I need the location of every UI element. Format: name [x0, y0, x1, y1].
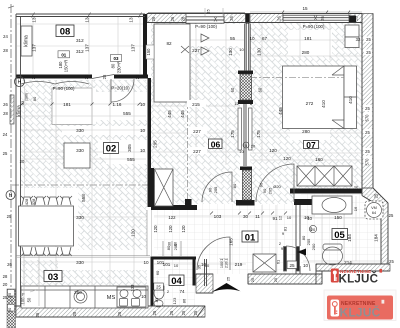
stove/sink unit — [117, 287, 146, 307]
svg-text:410: 410 — [321, 100, 326, 108]
washing machine — [365, 201, 383, 219]
svg-text:MS: MS — [107, 295, 116, 301]
svg-text:20: 20 — [251, 144, 256, 149]
svg-text:H: H — [9, 193, 13, 199]
svg-text:25: 25 — [181, 310, 186, 315]
svg-text:25: 25 — [365, 130, 370, 135]
svg-text:205: 205 — [268, 187, 273, 194]
svg-text:67: 67 — [262, 36, 268, 41]
svg-text:25: 25 — [273, 277, 278, 282]
svg-text:10: 10 — [140, 148, 146, 153]
svg-text:P=20(10): P=20(10) — [111, 86, 130, 91]
svg-text:26: 26 — [3, 102, 8, 107]
svg-text:130: 130 — [257, 48, 262, 56]
svg-text:P=90 (100): P=90 (100) — [195, 24, 217, 29]
svg-text:25: 25 — [169, 310, 174, 315]
closet row bedroom south — [297, 166, 352, 186]
svg-text:25: 25 — [35, 312, 40, 317]
svg-text:81: 81 — [154, 297, 159, 302]
svg-text:130: 130 — [228, 48, 233, 56]
entry door — [197, 237, 230, 270]
klima terrace — [21, 26, 32, 56]
kitchen dim lines — [16, 256, 150, 306]
floor: wc 04 tiles — [153, 259, 195, 306]
svg-text:103: 103 — [214, 214, 222, 219]
right exterior wall upper — [362, 14, 373, 189]
centerline over bed — [250, 77, 344, 79]
bathroom west wall — [295, 205, 297, 246]
dining chairs — [21, 196, 72, 256]
svg-text:445: 445 — [180, 110, 185, 118]
svg-text:330: 330 — [76, 128, 84, 133]
svg-text:330: 330 — [76, 148, 84, 153]
svg-text:10: 10 — [239, 149, 244, 154]
svg-text:H: H — [18, 80, 22, 86]
property line left — [10, 4, 12, 302]
svg-text:25: 25 — [152, 310, 157, 315]
right wall edges — [361, 14, 363, 196]
bed details — [344, 96, 357, 98]
svg-text:60: 60 — [230, 87, 235, 92]
svg-text:26: 26 — [320, 16, 325, 21]
svg-text:123: 123 — [172, 297, 177, 304]
svg-text:184: 184 — [374, 234, 379, 242]
svg-text:KLJUČ: KLJUČ — [339, 273, 379, 286]
windows (double lines) — [186, 17, 224, 23]
svg-text:28: 28 — [31, 74, 36, 79]
entrance south wall — [248, 274, 322, 284]
svg-text:06: 06 — [211, 140, 221, 150]
floor: room 06 parquet — [151, 22, 240, 204]
svg-text:11: 11 — [255, 214, 260, 219]
door marker boxes terrace — [58, 51, 70, 58]
closet X-box left of hall — [155, 169, 174, 206]
svg-text:25: 25 — [366, 37, 371, 42]
top wall band between terrace and windows — [147, 14, 186, 23]
closet row X — [314, 166, 316, 186]
svg-text:15: 15 — [302, 6, 308, 11]
svg-text:120: 120 — [168, 225, 173, 233]
small black arrow hall — [297, 249, 306, 256]
door leaf pockets on 06|07 wall — [238, 108, 242, 150]
floor: hallway 01 tiles — [154, 204, 298, 274]
svg-text:122: 122 — [168, 215, 176, 220]
terrace outline — [16, 13, 145, 15]
svg-text:570: 570 — [365, 158, 370, 166]
bathroom sink counter — [312, 196, 352, 214]
svg-text:137: 137 — [32, 44, 37, 52]
svg-text:445: 445 — [167, 110, 172, 118]
door markers terrace — [58, 53, 122, 73]
svg-text:90: 90 — [208, 187, 213, 192]
svg-text:25: 25 — [374, 193, 379, 198]
dining table — [19, 206, 74, 246]
boxed 25 hall — [287, 261, 297, 269]
svg-text:klima: klima — [17, 105, 23, 117]
hall NE stub / bathroom west top — [294, 199, 316, 205]
svg-text:20: 20 — [3, 282, 8, 287]
svg-text:280: 280 — [302, 50, 310, 55]
svg-text:137: 137 — [131, 44, 136, 52]
svg-text:20: 20 — [20, 159, 25, 164]
svg-text:P=90 (100): P=90 (100) — [303, 24, 325, 29]
svg-text:25: 25 — [250, 277, 255, 282]
svg-text:30: 30 — [168, 242, 172, 246]
svg-text:150: 150 — [146, 48, 151, 56]
svg-text:295: 295 — [153, 140, 158, 148]
svg-text:28: 28 — [354, 16, 359, 21]
stove burners — [120, 290, 128, 298]
svg-text:80: 80 — [174, 242, 178, 246]
svg-text:25: 25 — [7, 292, 12, 297]
window vent triangles room 06 — [201, 16, 317, 56]
svg-text:28: 28 — [3, 48, 8, 53]
svg-text:13: 13 — [85, 17, 90, 23]
small watermark logo — [331, 269, 382, 286]
kitchen counter inner — [21, 289, 148, 291]
svg-text:26: 26 — [170, 16, 175, 21]
svg-text:10: 10 — [205, 263, 210, 268]
svg-text:20: 20 — [311, 227, 316, 232]
terrace door arc — [111, 79, 134, 102]
svg-text:312: 312 — [76, 38, 84, 43]
kitchen south wall — [16, 306, 205, 317]
svg-text:25: 25 — [366, 50, 371, 55]
svg-text:08: 08 — [60, 27, 71, 38]
wardrobe room 06 — [154, 24, 190, 102]
svg-text:350: 350 — [74, 290, 82, 295]
svg-text:410: 410 — [348, 96, 353, 104]
terrace bottom wall — [16, 75, 92, 79]
svg-text:klima: klima — [24, 35, 30, 47]
svg-text:25: 25 — [389, 259, 394, 264]
svg-text:26: 26 — [7, 262, 12, 267]
window pier right — [349, 16, 356, 24]
dimension tick marks — [21, 13, 288, 215]
floor: bathroom 05 tiles — [301, 194, 381, 264]
svg-text:16: 16 — [353, 206, 358, 211]
svg-text:35: 35 — [197, 264, 202, 269]
nightstand — [345, 25, 359, 37]
svg-text:160: 160 — [315, 157, 323, 162]
svg-text:184: 184 — [347, 234, 352, 242]
door 07 — [256, 164, 294, 202]
kitchen south wall edges — [16, 305, 205, 307]
terrace right wall — [143, 14, 147, 78]
svg-text:137: 137 — [85, 44, 90, 52]
pier bottom caps — [240, 167, 252, 171]
bed 07 — [283, 66, 345, 129]
svg-text:428: 428 — [24, 198, 29, 205]
svg-text:1.16: 1.16 — [113, 102, 122, 107]
svg-text:13: 13 — [32, 17, 37, 23]
svg-text:VM: VM — [371, 206, 377, 210]
svg-text:86: 86 — [182, 298, 187, 303]
svg-text:428: 428 — [31, 198, 36, 205]
svg-text:10: 10 — [143, 260, 149, 265]
svg-text:01: 01 — [245, 233, 256, 244]
svg-text:280: 280 — [302, 129, 310, 134]
svg-text:28: 28 — [135, 74, 140, 79]
wc/hall stub wall — [196, 274, 213, 293]
sofa living — [64, 143, 90, 168]
left wall lower hatched part — [7, 289, 16, 328]
svg-text:25: 25 — [289, 263, 295, 268]
wardrobe diagonal — [181, 46, 189, 53]
svg-text:100: 100 — [21, 297, 26, 305]
hall shaft — [253, 254, 276, 272]
door 06 — [202, 172, 232, 202]
svg-text:570: 570 — [365, 114, 370, 122]
floor: bedroom 07 parquet — [250, 22, 362, 189]
bathroom door — [286, 246, 310, 271]
svg-text:60: 60 — [155, 270, 160, 275]
bathroom sink — [322, 198, 346, 213]
svg-text:215: 215 — [192, 102, 200, 107]
svg-text:10: 10 — [174, 263, 179, 268]
svg-text:25: 25 — [7, 214, 12, 219]
svg-text:10: 10 — [354, 185, 359, 190]
svg-text:24: 24 — [3, 132, 8, 137]
toilet 05 — [323, 247, 343, 265]
wall living|06 — [148, 78, 152, 207]
floor: living+dining room 02/03 parquet — [21, 80, 147, 306]
svg-text:120: 120 — [283, 156, 291, 161]
svg-text:64: 64 — [372, 211, 376, 215]
svg-text:312: 312 — [76, 49, 84, 54]
svg-text:04: 04 — [171, 276, 182, 287]
bedroom south wall — [290, 189, 362, 194]
svg-text:150: 150 — [334, 215, 342, 220]
klima unit outside left wall — [10, 95, 14, 124]
round sink — [74, 290, 87, 303]
svg-text:30: 30 — [243, 214, 249, 219]
svg-text:120: 120 — [181, 225, 186, 233]
svg-text:12: 12 — [234, 101, 239, 106]
pier label — [243, 142, 249, 148]
svg-text:25: 25 — [365, 106, 370, 111]
svg-text:120: 120 — [269, 148, 277, 153]
svg-text:26: 26 — [151, 16, 156, 21]
svg-text:175: 175 — [256, 130, 261, 138]
top wall band edges — [147, 13, 362, 15]
svg-text:165: 165 — [229, 238, 234, 246]
svg-text:330: 330 — [76, 260, 84, 265]
svg-text:28: 28 — [181, 16, 186, 21]
left column dims — [3, 34, 12, 300]
svg-text:01: 01 — [61, 52, 66, 57]
svg-text:03: 03 — [48, 272, 59, 283]
svg-text:32: 32 — [356, 37, 361, 42]
svg-text:219: 219 — [235, 262, 243, 267]
svg-text:28: 28 — [84, 74, 89, 79]
svg-text:07: 07 — [306, 140, 316, 150]
hall shaft X — [253, 254, 276, 272]
svg-text:555: 555 — [123, 111, 131, 116]
svg-text:55: 55 — [230, 36, 236, 41]
terrace 08 floor grid — [17, 17, 143, 74]
svg-text:120: 120 — [131, 229, 136, 237]
white underlays for text zones / furniture — [52, 88, 96, 124]
wc fixtures 04 — [154, 287, 164, 299]
svg-text:KLJUČ: KLJUČ — [340, 305, 381, 320]
big logo — [324, 290, 396, 321]
svg-text:227: 227 — [193, 149, 201, 154]
right exterior wall lower with diagonal connector — [362, 188, 388, 264]
svg-text:(100): (100) — [25, 93, 29, 101]
entrance black triangle — [211, 283, 241, 292]
svg-text:30: 30 — [7, 307, 12, 312]
svg-text:150+R: 150+R — [64, 60, 69, 72]
accordion door curves terrace — [21, 82, 89, 85]
light extension lines living — [21, 22, 390, 286]
svg-text:25: 25 — [389, 213, 394, 218]
wall 06|07 thin double above/below piers — [244, 24, 246, 72]
svg-text:272: 272 — [306, 101, 314, 106]
svg-text:227: 227 — [192, 48, 200, 53]
svg-text:558: 558 — [81, 194, 86, 202]
svg-text:05: 05 — [334, 230, 345, 241]
svg-text:10: 10 — [303, 263, 309, 268]
svg-text:227: 227 — [193, 129, 201, 134]
wm — [367, 203, 382, 218]
svg-text:25: 25 — [72, 311, 77, 316]
svg-text:60: 60 — [258, 87, 263, 92]
svg-text:25: 25 — [193, 310, 198, 315]
svg-text:28: 28 — [3, 111, 8, 116]
hall dim texts — [7, 215, 186, 267]
svg-text:24: 24 — [3, 34, 8, 39]
svg-text:26: 26 — [277, 16, 282, 21]
svg-text:80: 80 — [32, 96, 37, 101]
crosshatched piers — [240, 74, 252, 100]
svg-text:03: 03 — [114, 56, 119, 61]
svg-text:180: 180 — [58, 61, 63, 69]
svg-text:214: 214 — [344, 260, 352, 265]
svg-text:205: 205 — [213, 186, 218, 193]
svg-text:P=90 (100): P=90 (100) — [53, 86, 75, 91]
wc walls — [151, 257, 197, 260]
svg-text:15: 15 — [206, 9, 211, 14]
svg-text:26: 26 — [229, 16, 234, 21]
svg-text:10: 10 — [140, 102, 146, 107]
svg-text:10: 10 — [304, 215, 310, 220]
kitchen counter — [21, 286, 148, 308]
section circles — [6, 77, 25, 200]
svg-text:90: 90 — [262, 188, 267, 193]
svg-text:305: 305 — [127, 144, 132, 152]
svg-text:50: 50 — [27, 297, 32, 302]
svg-text:25: 25 — [156, 285, 161, 290]
hall north wall left part — [151, 205, 197, 210]
svg-text:25: 25 — [365, 149, 370, 154]
svg-text:80: 80 — [232, 183, 237, 188]
svg-text:25: 25 — [3, 151, 8, 156]
svg-text:80: 80 — [111, 63, 116, 68]
svg-text:181: 181 — [63, 102, 71, 107]
dashed centerlines — [12, 24, 344, 204]
svg-text:25: 25 — [226, 276, 231, 281]
svg-text:25: 25 — [117, 311, 122, 316]
svg-text:101: 101 — [163, 262, 171, 267]
svg-text:5: 5 — [245, 144, 247, 148]
svg-text:10: 10 — [140, 128, 146, 133]
bathroom south edges — [316, 263, 390, 265]
duct lines above wc — [163, 241, 181, 256]
pier between 06|07 top — [246, 13, 250, 24]
svg-text:02: 02 — [106, 144, 117, 155]
svg-text:330: 330 — [76, 215, 84, 220]
svg-text:10: 10 — [249, 36, 255, 41]
wc right niche — [204, 259, 206, 286]
svg-text:82: 82 — [166, 41, 172, 46]
bathroom south wall — [316, 264, 390, 271]
svg-text:28: 28 — [3, 274, 8, 279]
svg-text:555: 555 — [127, 157, 135, 162]
svg-text:12: 12 — [278, 215, 283, 220]
svg-text:90: 90 — [259, 182, 264, 187]
svg-text:133: 133 — [130, 284, 135, 292]
svg-text:100⑴: 100⑴ — [219, 258, 224, 268]
svg-text:61: 61 — [276, 259, 281, 264]
svg-text:10: 10 — [239, 47, 244, 52]
svg-text:200: 200 — [311, 243, 316, 250]
svg-text:120: 120 — [153, 225, 158, 233]
svg-text:181: 181 — [304, 36, 312, 41]
svg-text:210⑴: 210⑴ — [224, 258, 229, 268]
svg-text:74: 74 — [179, 289, 185, 294]
svg-text:230+R: 230+R — [117, 61, 122, 73]
svg-text:10: 10 — [287, 215, 292, 220]
svg-text:13: 13 — [129, 17, 134, 23]
svg-text:445: 445 — [278, 107, 283, 115]
svg-text:Ø20: Ø20 — [273, 184, 281, 189]
wall 28 labels — [31, 16, 359, 80]
svg-text:10: 10 — [141, 294, 146, 299]
terrace wall gap slant — [92, 75, 114, 79]
entrance wall edges — [248, 273, 322, 275]
right column dims — [354, 37, 395, 265]
svg-text:175: 175 — [230, 130, 235, 138]
